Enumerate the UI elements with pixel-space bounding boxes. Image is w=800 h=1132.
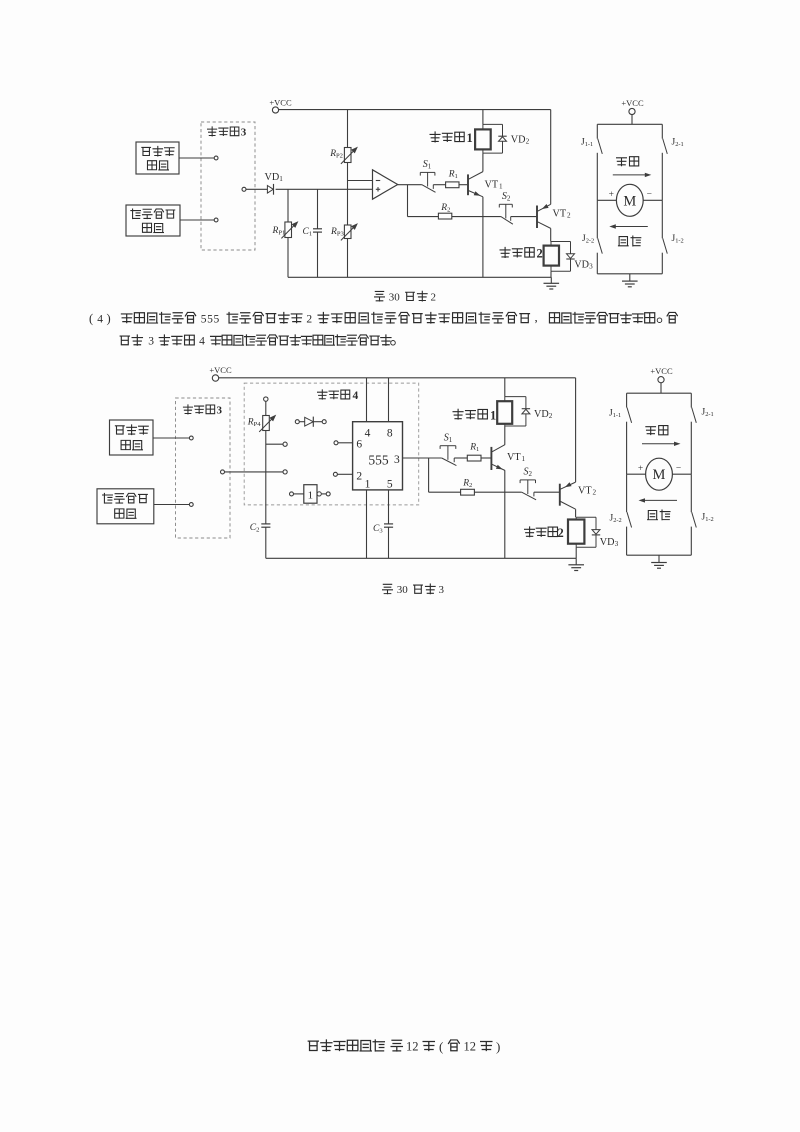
svg-text:3: 3 xyxy=(217,404,223,416)
svg-text:−: − xyxy=(647,190,652,200)
module box hand-detect (fig3) xyxy=(110,420,154,455)
label dashed-frame-2 (fig3) xyxy=(525,526,564,540)
bottom rail circuit 1 xyxy=(288,276,551,278)
wire RP2 to RP3 vertical xyxy=(347,163,349,226)
motor M xyxy=(646,458,673,490)
capacitor C3 xyxy=(373,524,393,535)
svg-text:5: 5 xyxy=(387,479,393,491)
wire pin5 to C3 xyxy=(388,490,390,524)
svg-text:2: 2 xyxy=(593,489,597,497)
relay box 2 with diode VD3 (dashed-frame-2 component) xyxy=(544,242,575,272)
terminal above RP4 xyxy=(264,397,268,401)
svg-text:2: 2 xyxy=(431,291,437,303)
svg-text:+: + xyxy=(609,190,614,200)
label dashed-frame-1 (fig3) xyxy=(453,408,496,422)
resistor R2 xyxy=(438,203,501,219)
footer page caption xyxy=(308,1039,500,1054)
switch contact J2-2 xyxy=(627,474,632,555)
svg-text:2: 2 xyxy=(537,247,543,261)
dashed box 3 (circuit 1) xyxy=(201,122,255,250)
arrow reverse xyxy=(639,498,678,502)
wire relay1 to VT1 collector (fig3) xyxy=(504,426,506,445)
resistor R1 xyxy=(446,169,468,187)
wire VCC rail to VT2 emitter xyxy=(550,110,552,205)
wire VT1 emitter down xyxy=(482,197,484,277)
IC 555 timer xyxy=(353,422,403,491)
label J2-2 xyxy=(610,514,622,525)
label VD2 (fig3) xyxy=(534,409,553,420)
svg-text:3: 3 xyxy=(589,263,593,271)
ground motor bridge xyxy=(622,274,638,287)
label forward-rotation xyxy=(617,157,639,166)
relay box 2 with diode VD3 (fig3) xyxy=(568,517,600,547)
capacitor C2 xyxy=(250,523,271,534)
label VD2 xyxy=(511,134,530,145)
svg-text:12: 12 xyxy=(406,1040,419,1054)
svg-text:−: − xyxy=(676,464,681,474)
label reverse-rotation xyxy=(618,236,641,246)
wire VCC stem xyxy=(660,383,662,393)
label J1-2 xyxy=(702,513,714,524)
label forward-rotation xyxy=(646,426,668,435)
wire top bar xyxy=(627,392,692,394)
wire bottom bar xyxy=(597,273,662,275)
wire S2 to VT2 base (fig3) xyxy=(534,491,559,493)
svg-text:1: 1 xyxy=(467,131,473,145)
label J2-1 xyxy=(672,138,684,149)
dashed box 3 (fig3) xyxy=(176,398,231,538)
svg-text:1: 1 xyxy=(365,479,371,491)
ground circuit 2 xyxy=(568,558,584,570)
wire pin1 to rail xyxy=(366,490,368,558)
power +VCC terminal (circuit 1) xyxy=(269,98,292,114)
caption figure 3 xyxy=(383,584,445,596)
wire garbage-detect to node xyxy=(180,218,218,222)
svg-text:12: 12 xyxy=(464,1040,477,1054)
svg-text:VD: VD xyxy=(511,134,526,145)
svg-text:4: 4 xyxy=(365,428,371,440)
wire hand-detect to node (fig3) xyxy=(153,436,193,440)
module box garbage-detect xyxy=(126,205,180,236)
svg-text:1: 1 xyxy=(308,490,314,502)
wire S2 to VT2 base xyxy=(511,216,537,218)
pushbutton S2 (fig3) xyxy=(520,467,536,500)
svg-text:3: 3 xyxy=(241,126,247,138)
wire output node to R2 branch xyxy=(408,185,439,217)
svg-text:VD: VD xyxy=(574,260,589,271)
wire pin4 to VCC xyxy=(366,378,368,422)
svg-text:VT: VT xyxy=(578,486,592,497)
switch contact J1-2 xyxy=(662,200,667,273)
svg-text:8: 8 xyxy=(387,428,393,440)
svg-text:VD: VD xyxy=(600,537,615,548)
svg-text:2: 2 xyxy=(558,526,564,540)
label dashed-frame-4 xyxy=(318,390,359,402)
wire pin8 to VCC xyxy=(388,378,390,422)
svg-text:1: 1 xyxy=(522,455,526,463)
wire minus input xyxy=(348,180,373,182)
motor M xyxy=(616,184,643,216)
svg-text:(: ( xyxy=(89,312,93,326)
wire RP4 down to C2 xyxy=(265,431,267,524)
wire relay2 to rail (fig3) xyxy=(575,547,577,558)
ground motor bridge xyxy=(651,555,667,568)
svg-text:+: + xyxy=(638,464,643,474)
ground circuit 1 xyxy=(544,277,560,289)
wire motor left lead with plus xyxy=(627,464,646,474)
switch contact J2-1 xyxy=(691,393,696,474)
wire VCC stem xyxy=(631,115,633,125)
wire pin3 node to R2 branch (fig3) xyxy=(429,458,461,492)
svg-text:1: 1 xyxy=(279,175,283,183)
wire VT2 collector down (fig3) xyxy=(575,509,577,517)
op-amp comparator xyxy=(373,170,398,199)
wire S1 to R1 xyxy=(433,184,445,186)
svg-text:M: M xyxy=(623,193,636,209)
caption figure 2 xyxy=(375,291,436,303)
svg-text:VD: VD xyxy=(265,172,280,183)
label J1-1 xyxy=(581,137,593,148)
switch contact J1-2 xyxy=(691,474,696,555)
wire motor right lead with minus xyxy=(643,190,662,200)
arrow forward xyxy=(613,173,652,177)
switch contact J2-1 xyxy=(662,124,667,200)
svg-text:1: 1 xyxy=(499,183,503,191)
switch contact J2-2 xyxy=(597,200,602,273)
pushbutton S1 xyxy=(420,159,435,192)
wire op-amp output xyxy=(398,184,422,186)
wire RP3 to bottom rail xyxy=(347,239,349,278)
potentiometer RP4 xyxy=(247,401,276,432)
switch contact J1-1 xyxy=(627,393,632,474)
wire C3 to rail xyxy=(388,527,390,558)
svg-text:M: M xyxy=(653,467,666,483)
svg-text:4: 4 xyxy=(97,313,103,325)
svg-text:): ) xyxy=(496,1039,500,1054)
wire bottom bar xyxy=(627,554,692,556)
svg-text:,: , xyxy=(535,309,538,324)
bottom rail circuit 2 xyxy=(266,557,576,559)
resistor R1 (fig3) xyxy=(467,442,490,461)
svg-text:555: 555 xyxy=(368,452,389,467)
transistor VT2 PNP (fig3) xyxy=(560,482,597,509)
label J2-1 xyxy=(702,408,714,419)
svg-text:4: 4 xyxy=(353,390,359,402)
wire VCC top rail circuit 1 xyxy=(279,109,551,111)
node output of box3 xyxy=(242,187,267,191)
potentiometer RP2 xyxy=(329,110,358,164)
label VD3 (fig3) xyxy=(600,537,619,548)
svg-text:2: 2 xyxy=(567,212,571,220)
wire box3 output to terminal xyxy=(225,470,288,474)
wire VCC top rail circuit 2 xyxy=(219,377,576,379)
resistor R2 (fig3) xyxy=(461,478,522,495)
svg-text:4: 4 xyxy=(199,336,205,348)
svg-text:+VCC: +VCC xyxy=(209,365,232,375)
wire motor right lead with minus xyxy=(672,464,691,474)
node box3 output (fig3) xyxy=(221,470,225,474)
svg-text:VT: VT xyxy=(507,452,521,463)
svg-text:+VCC: +VCC xyxy=(621,98,644,108)
wire pin2 stub xyxy=(333,472,352,476)
label J2-2 xyxy=(582,234,594,245)
wire VD1 to op-amp plus input xyxy=(276,188,373,190)
module box hand-detect xyxy=(136,142,179,174)
wire top bar xyxy=(597,123,662,125)
svg-text:2: 2 xyxy=(526,137,530,145)
wire pin3 output xyxy=(403,457,442,459)
wire pin6 stub xyxy=(334,441,353,445)
wire hand-detect to node xyxy=(179,156,218,160)
potentiometer RP1 xyxy=(272,189,299,277)
capacitor C1 xyxy=(303,189,323,277)
arrow forward xyxy=(642,442,681,446)
switch contact J1-1 xyxy=(597,124,602,200)
inverter gate 1 xyxy=(290,485,331,504)
svg-text:2: 2 xyxy=(356,470,362,482)
svg-text:+VCC: +VCC xyxy=(650,366,673,376)
relay box 1 with diode VD2 (fig3) xyxy=(497,378,530,426)
svg-text:3: 3 xyxy=(394,454,400,466)
svg-text:VD: VD xyxy=(534,409,549,420)
svg-text:+VCC: +VCC xyxy=(269,98,292,108)
pushbutton S2 xyxy=(499,191,513,224)
relay box 1 with diode VD2 (dashed-frame-1 component) xyxy=(475,110,507,154)
wire relay2 to ground xyxy=(550,271,552,277)
svg-text:555: 555 xyxy=(201,313,220,325)
wire RP4 tap to terminal xyxy=(266,442,287,446)
power +VCC terminal (motor bridge) xyxy=(650,366,673,383)
wire VCC rail to VT2 emitter (fig3) xyxy=(575,378,577,482)
svg-text:3: 3 xyxy=(615,540,619,548)
wire VT1 emitter down (fig3) xyxy=(504,471,506,559)
transistor VT1 xyxy=(468,172,503,197)
svg-text:): ) xyxy=(107,312,111,326)
power +VCC terminal (motor bridge) xyxy=(621,98,644,115)
wire S1 to R1 (fig3) xyxy=(454,457,467,459)
svg-text:30: 30 xyxy=(397,584,409,596)
svg-text:1: 1 xyxy=(490,408,496,422)
wire motor left lead with plus xyxy=(597,190,616,200)
dashed box 4 xyxy=(244,383,419,505)
svg-text:3: 3 xyxy=(439,584,445,596)
diode VD1 xyxy=(265,172,284,195)
label J1-1 xyxy=(609,409,621,420)
label dashed-frame-2 xyxy=(500,247,543,261)
potentiometer RP3 xyxy=(330,223,358,240)
wire relay1 to VT1 collector xyxy=(482,153,484,172)
paragraph line 1 xyxy=(89,309,677,325)
module box garbage-detect (fig3) xyxy=(97,489,154,524)
paragraph line 2 xyxy=(120,335,395,348)
svg-text:VT: VT xyxy=(485,180,499,191)
wire C2 to bottom rail xyxy=(265,527,267,558)
label J1-2 xyxy=(672,234,684,245)
floating diode component xyxy=(295,417,326,427)
svg-text:30: 30 xyxy=(389,291,401,303)
svg-text:3: 3 xyxy=(148,336,154,348)
label dashed-frame-1 xyxy=(430,131,473,145)
pushbutton S1 (fig3) xyxy=(440,433,456,466)
svg-text:6: 6 xyxy=(356,439,362,451)
wire VT2 collector down xyxy=(550,228,552,241)
svg-text:2: 2 xyxy=(306,313,312,325)
transistor VT2 (PNP) xyxy=(537,204,571,228)
svg-text:(: ( xyxy=(439,1039,443,1054)
svg-text:VT: VT xyxy=(553,209,567,220)
wire garbage-detect to node (fig3) xyxy=(154,503,193,507)
transistor VT1 (fig3) xyxy=(491,445,525,471)
arrow reverse xyxy=(609,224,648,228)
label reverse-rotation xyxy=(648,510,671,520)
power +VCC terminal (circuit 2) xyxy=(209,365,232,381)
svg-text:2: 2 xyxy=(549,412,553,420)
label VD3 xyxy=(574,260,593,271)
